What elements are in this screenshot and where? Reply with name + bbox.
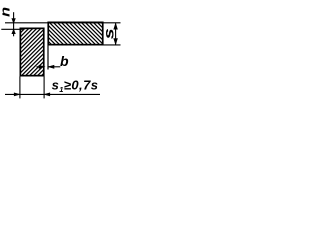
dimension b: line	[48, 66, 60, 68]
plate contour: vertical sheet (thickness s1)	[20, 28, 43, 75]
svg-text:n: n	[0, 7, 13, 17]
dimension b: left arrow	[48, 65, 54, 68]
wire: bottom-right extension line for s	[102, 44, 121, 46]
dimension s1: line	[5, 93, 100, 95]
plate contour: horizontal sheet (thickness s)	[48, 22, 103, 44]
plate hatch: vertical sheet	[0, 27, 143, 78]
dimension b: right arrow over hatch	[37, 66, 45, 68]
wire: lower-left extension line for n	[1, 28, 23, 30]
dimension s: upper arrow (up)	[114, 23, 118, 29]
dimension s: lower arrow (down)	[114, 39, 118, 45]
dimension s1: left arrow (pointing right)	[14, 93, 20, 96]
svg-text:s1≥0,7s: s1≥0,7s	[52, 78, 99, 94]
dimension n: line	[13, 12, 15, 36]
dimension s1: left extension line	[19, 77, 21, 99]
svg-text:b: b	[60, 53, 69, 69]
svg-text:s: s	[101, 28, 116, 39]
dimension b: extension line	[47, 46, 49, 70]
plate hatch: horizontal sheet	[23, 21, 153, 47]
dimension s1: right arrow (pointing left)	[44, 93, 50, 96]
dimension n: upper arrow (down)	[12, 19, 15, 24]
dimension n: lower arrow (up)	[12, 29, 15, 34]
dimension s: line	[115, 23, 117, 44]
wire: top extension line (n to s dimension)	[5, 22, 121, 24]
dimension s1: right extension line	[43, 77, 45, 99]
